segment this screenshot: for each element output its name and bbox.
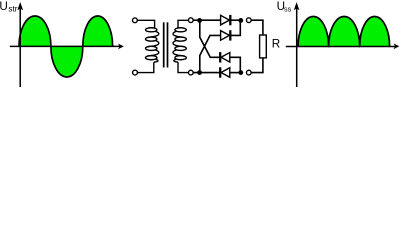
svg-text:str: str bbox=[8, 5, 17, 14]
svg-text:U: U bbox=[0, 0, 8, 13]
svg-text:ss: ss bbox=[284, 5, 292, 14]
svg-text:R: R bbox=[272, 38, 280, 51]
